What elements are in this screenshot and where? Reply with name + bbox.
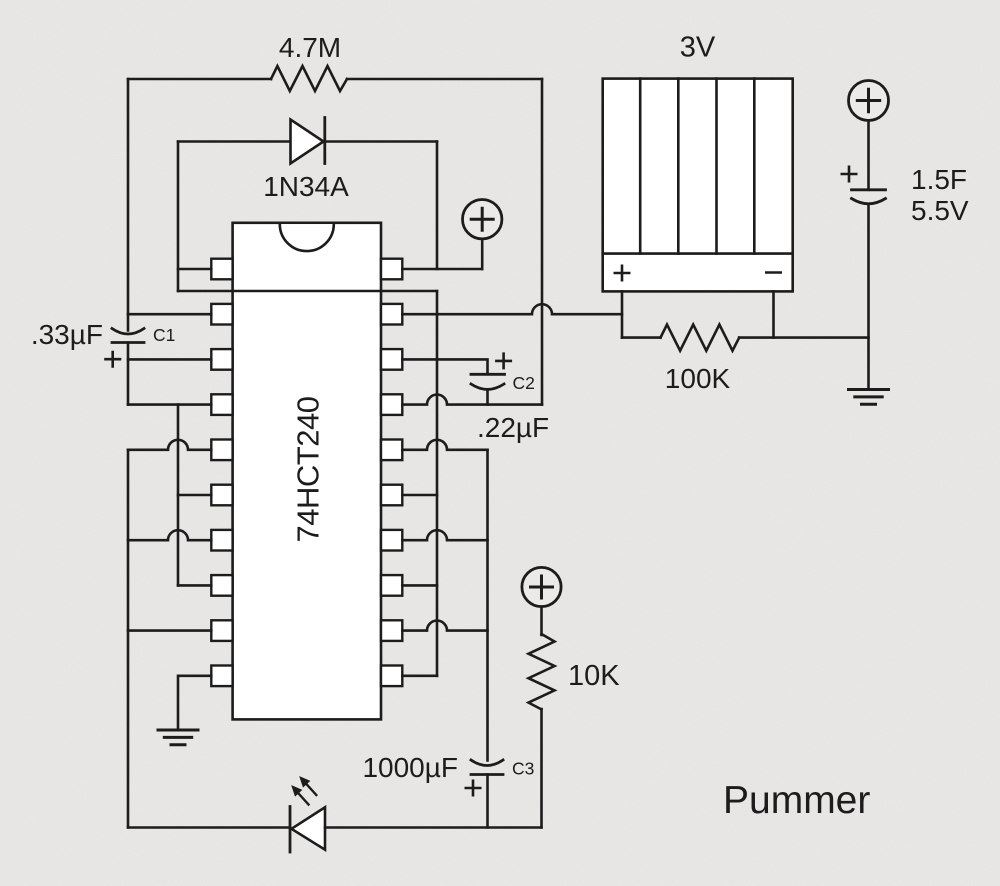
IC U1 pin L2 bbox=[211, 304, 232, 325]
wire diode loop right leg x=437 down to pin R1 wire bbox=[436, 142, 439, 270]
capacitor C1 straight plate bbox=[112, 341, 144, 344]
wire solar plus to resistor 100K bbox=[622, 336, 661, 339]
wire resistor 100K to supercap node bbox=[739, 336, 868, 339]
solar panel cell divider 2 bbox=[677, 79, 680, 254]
power symbol +V A circle bbox=[463, 200, 502, 239]
power symbol +V C cross bbox=[857, 89, 879, 111]
wire output rail x=487.5 from pin R5 row to capacitor C3 bbox=[486, 450, 489, 761]
wire top rail left segment bbox=[128, 78, 271, 81]
wire +V A stem to pin R1 wire bbox=[481, 239, 484, 269]
IC U1 pin L10 bbox=[211, 666, 232, 687]
capacitor C1 polarity plus bbox=[106, 352, 121, 367]
solar panel 3V body bbox=[603, 79, 793, 292]
wire pin R7 to output rail with hop over x=437 bbox=[402, 530, 487, 540]
wire pin L9 to lower left rail bbox=[128, 629, 211, 632]
wire solar plus terminal down to 100K bbox=[621, 291, 624, 337]
wire pin L8 to inner-left vertical bbox=[178, 584, 211, 587]
wire pin R2 to solar plus with hop over Vdd rail bbox=[402, 304, 622, 314]
svg-text:100K: 100K bbox=[665, 363, 731, 394]
wire +V C stem to supercap bbox=[867, 121, 870, 190]
svg-text:5.5V: 5.5V bbox=[911, 195, 969, 226]
svg-text:.33µF: .33µF bbox=[31, 319, 103, 350]
wire diode cathode to right leg bbox=[325, 140, 437, 143]
capacitor C2 curved plate bbox=[471, 384, 504, 389]
solar panel cell divider 3 bbox=[715, 79, 718, 254]
resistor 4.7M bbox=[271, 66, 347, 91]
IC U1 74HCT240 body bbox=[233, 223, 381, 720]
resistor 100K bbox=[661, 325, 740, 351]
IC U1 pin R3 bbox=[381, 349, 402, 370]
wire capacitor C3 bottom stub to bottom rail bbox=[486, 775, 489, 828]
supercap polarity plus bbox=[842, 167, 856, 181]
wire inner-right vertical x=437 from crossing wire to pin R10 bbox=[436, 291, 439, 676]
LED light arrow 2 bbox=[301, 778, 317, 796]
solar panel minus terminal mark bbox=[766, 271, 780, 274]
resistor 10K bbox=[529, 634, 555, 709]
wire lower left rail x=128 down to bottom rail bbox=[127, 450, 130, 828]
wire pin R8 to inner-right vertical bbox=[402, 584, 437, 587]
wire pin L4 to left rail elbow bbox=[128, 403, 211, 406]
wire pin R9 to output rail with hop over x=437 bbox=[402, 621, 487, 631]
wire bottom rail left of LED bbox=[128, 826, 290, 829]
wire pin L5 to lower left rail with hop over x=178 bbox=[128, 440, 211, 450]
IC U1 pin L8 bbox=[211, 575, 232, 596]
IC U1 pin R5 bbox=[381, 440, 402, 461]
IC U1 pin L9 bbox=[211, 620, 232, 641]
diode D1 1N34A cathode bar bbox=[323, 118, 326, 164]
power symbol +V C circle bbox=[849, 81, 889, 121]
IC U1 pin R10 bbox=[381, 666, 402, 687]
svg-text:4.7M: 4.7M bbox=[279, 32, 341, 63]
wire solar minus terminal down to 100K net bbox=[772, 291, 775, 337]
ground symbol at IC pin L10 bbox=[158, 730, 198, 745]
solar panel plus terminal mark bbox=[615, 266, 629, 280]
svg-text:.22µF: .22µF bbox=[477, 412, 549, 443]
solar panel terminal strip line bbox=[603, 252, 793, 255]
wire pin L1 to diode left leg bbox=[178, 268, 211, 271]
wire supercap bottom to ground bbox=[867, 204, 870, 390]
IC U1 notch bbox=[280, 224, 334, 251]
svg-text:C1: C1 bbox=[153, 325, 175, 345]
wire pin R6 to inner-right vertical bbox=[402, 494, 437, 497]
wire diode loop left leg x=178 bbox=[177, 142, 180, 292]
wire pin L6 to inner-left vertical bbox=[178, 494, 211, 497]
wire pin L3 to left rail bbox=[128, 358, 211, 361]
wire pin L7 to lower left rail with hop over x=178 bbox=[128, 530, 211, 540]
wire left rail upper above C1 bbox=[127, 79, 130, 331]
wire pin R10 to inner-right vertical bbox=[402, 674, 437, 677]
wire bottom rail right of LED bbox=[325, 826, 542, 829]
diode D1 1N34A triangle bbox=[291, 120, 324, 164]
power symbol +V B cross bbox=[531, 576, 553, 598]
capacitor C2 polarity plus bbox=[496, 354, 510, 368]
IC U1 pin L3 bbox=[211, 349, 232, 370]
wire resistor 10K down to bottom rail bbox=[540, 709, 543, 828]
IC U1 pin R7 bbox=[381, 530, 402, 551]
wire pin L10 to ground stub bbox=[178, 676, 211, 730]
IC U1 pin L1 bbox=[211, 259, 232, 280]
wire diode loop top from left leg to diode anode bbox=[178, 140, 291, 143]
wire pin L2 to left rail bbox=[128, 313, 211, 316]
svg-text:1.5F: 1.5F bbox=[911, 164, 967, 195]
svg-text:1N34A: 1N34A bbox=[263, 171, 349, 202]
wire capacitor C2 bottom stub to pin R4 wire bbox=[486, 390, 489, 405]
LED cathode bar bbox=[289, 807, 292, 853]
power symbol +V B circle bbox=[522, 567, 561, 606]
wire pin R5 to output rail with hop over x=437 bbox=[402, 440, 487, 450]
LED triangle bbox=[292, 807, 326, 849]
capacitor C3 straight plate bbox=[471, 773, 503, 776]
IC U1 pin R2 bbox=[381, 304, 402, 325]
solar panel cell divider 4 bbox=[753, 79, 756, 254]
IC U1 pin R9 bbox=[381, 620, 402, 641]
capacitor C1 curved plate bbox=[112, 329, 144, 335]
IC U1 pin L7 bbox=[211, 530, 232, 551]
svg-text:3V: 3V bbox=[680, 32, 716, 64]
IC U1 pin R1 bbox=[381, 259, 402, 280]
IC U1 pin L5 bbox=[211, 440, 232, 461]
wire pin R3 to capacitor C2 top bbox=[402, 359, 487, 374]
wire inner-left vertical x=178 from pin L4 row to pin L8 row bbox=[177, 405, 180, 586]
wire top rail right segment bbox=[347, 78, 542, 81]
wire pin R4 to Vdd rail with hop over x=437 bbox=[402, 395, 542, 405]
wire +V B stem to resistor 10K bbox=[540, 607, 543, 635]
svg-text:C3: C3 bbox=[512, 759, 534, 779]
svg-text:1000µF: 1000µF bbox=[362, 752, 458, 783]
capacitor C3 curved plate bbox=[471, 760, 503, 766]
supercap 1.5F straight plate bbox=[852, 188, 886, 191]
svg-text:C2: C2 bbox=[513, 373, 535, 393]
capacitor C2 straight plate bbox=[471, 373, 505, 376]
ground symbol at supercap bbox=[849, 390, 889, 405]
supercap 1.5F curved plate bbox=[852, 199, 886, 204]
IC U1 pin R6 bbox=[381, 485, 402, 506]
wire crossing IC at y=291 from left leg to right vertical bbox=[178, 290, 437, 293]
capacitor C3 polarity plus bbox=[466, 781, 480, 795]
svg-text:10K: 10K bbox=[568, 660, 620, 692]
wire pin R1 to plus supply stub bbox=[402, 268, 482, 271]
IC U1 pin R8 bbox=[381, 575, 402, 596]
solar panel cell divider 1 bbox=[639, 79, 642, 254]
power symbol +V A cross bbox=[471, 208, 493, 230]
svg-text:74HCT240: 74HCT240 bbox=[291, 396, 326, 542]
wire Vdd rail vertical x=542 down to pin R4 row bbox=[541, 79, 544, 405]
IC U1 pin L6 bbox=[211, 485, 232, 506]
LED light arrow 1 bbox=[293, 787, 309, 805]
IC U1 pin L4 bbox=[211, 394, 232, 415]
wire left rail between C1 and pin L4 row bbox=[127, 343, 130, 405]
svg-text:Pummer: Pummer bbox=[723, 779, 870, 822]
IC U1 pin R4 bbox=[381, 394, 402, 415]
